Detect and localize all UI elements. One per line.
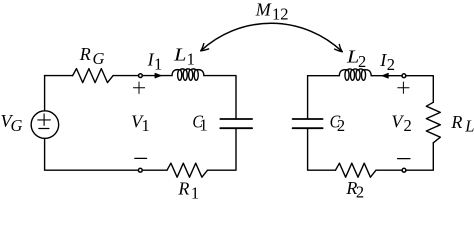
svg-text:M: M xyxy=(255,0,272,19)
node bottom-left (open terminal) xyxy=(138,168,142,172)
wire top-right of right loop xyxy=(371,76,433,103)
label C_1 xyxy=(192,112,207,135)
label V_1 xyxy=(131,111,150,134)
current arrow I2 xyxy=(382,73,388,78)
wire top-left segment xyxy=(45,75,73,77)
wire right side bottom of right loop xyxy=(376,143,433,170)
label R_G xyxy=(79,44,105,68)
mutual coupling arc M12 xyxy=(201,23,342,51)
inductor L1 xyxy=(172,69,204,80)
node top-left (open terminal) xyxy=(139,74,143,78)
wire left side top of right loop xyxy=(307,76,309,119)
svg-text:2: 2 xyxy=(358,52,366,71)
label M_12 xyxy=(255,0,289,24)
source V_G xyxy=(31,111,59,139)
inductor L2 xyxy=(339,69,371,80)
label V_2 xyxy=(391,111,411,135)
svg-text:R: R xyxy=(177,179,189,199)
svg-text:G: G xyxy=(93,49,105,68)
svg-text:R: R xyxy=(79,44,91,64)
svg-text:1: 1 xyxy=(142,116,150,135)
label R_1 xyxy=(177,179,199,203)
label R_2 xyxy=(345,178,364,202)
minus sign of V1 xyxy=(135,157,147,159)
resistor R2 xyxy=(336,163,377,177)
plus sign of V1 xyxy=(133,82,144,94)
svg-text:2: 2 xyxy=(387,55,395,74)
wire top-left of right loop xyxy=(308,75,340,77)
svg-text:L: L xyxy=(464,117,474,136)
svg-text:12: 12 xyxy=(272,5,289,24)
label R_L xyxy=(450,112,474,136)
svg-text:L: L xyxy=(173,44,187,64)
svg-text:G: G xyxy=(11,116,23,135)
node bottom-right (open terminal) xyxy=(402,168,406,172)
svg-text:1: 1 xyxy=(191,183,199,199)
label I_2 xyxy=(379,50,395,74)
plus sign of V2 xyxy=(398,82,409,93)
arrowhead left of M12 arc xyxy=(201,44,209,51)
label L_1 xyxy=(173,44,195,68)
label C_2 xyxy=(330,112,346,135)
resistor R1 xyxy=(167,163,208,177)
arrowhead right of M12 arc xyxy=(335,44,343,51)
wire bottom-left of left loop xyxy=(45,138,167,170)
wire right side of left loop xyxy=(208,128,237,170)
svg-text:1: 1 xyxy=(154,55,162,74)
svg-text:1: 1 xyxy=(199,116,207,135)
current arrow I1 xyxy=(155,73,161,78)
capacitor C1 xyxy=(220,119,252,128)
svg-text:1: 1 xyxy=(187,50,195,69)
wire bottom-left of right loop xyxy=(308,128,336,170)
svg-text:R: R xyxy=(450,112,462,132)
node top-right (open terminal) xyxy=(402,74,406,78)
svg-text:V: V xyxy=(391,111,404,131)
capacitor C2 xyxy=(293,119,323,128)
wire top mid-left xyxy=(113,75,172,77)
label L_2 xyxy=(346,47,366,71)
svg-text:2: 2 xyxy=(356,183,364,199)
svg-text:2: 2 xyxy=(404,116,412,135)
wire left side top of left loop xyxy=(44,76,46,111)
minus sign of V2 xyxy=(398,158,410,160)
label V_G xyxy=(1,111,23,135)
wire top-right of left loop xyxy=(204,76,236,119)
svg-text:2: 2 xyxy=(337,116,345,135)
label I_1 xyxy=(147,50,163,74)
resistor R_L xyxy=(426,102,440,143)
resistor R_G xyxy=(73,69,114,83)
